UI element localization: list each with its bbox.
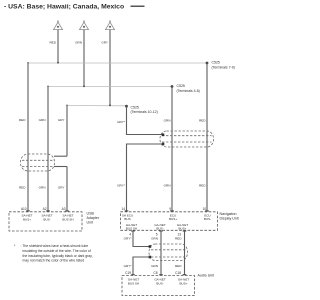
terminal at C8 bbox=[159, 274, 163, 276]
terminal at pin 13 bbox=[183, 230, 187, 232]
svg-text:GRN: GRN bbox=[39, 118, 46, 122]
svg-text:C525: C525 bbox=[177, 84, 185, 88]
wire RED vertical to USB unit bbox=[27, 63, 29, 212]
bus wire 1 (horizontal, y=63) bbox=[28, 62, 207, 64]
svg-text:(Terminals 10-12): (Terminals 10-12) bbox=[131, 110, 158, 114]
svg-text:Navigation: Navigation bbox=[220, 212, 237, 216]
svg-text:GRY*: GRY* bbox=[124, 264, 133, 268]
svg-text:Adapter: Adapter bbox=[87, 216, 100, 220]
svg-text:C525: C525 bbox=[212, 61, 220, 65]
wire GRN nav-to-audio bbox=[160, 231, 162, 275]
shield connection square top (tube 2) bbox=[162, 134, 165, 137]
terminal at A3 bbox=[65, 210, 69, 212]
junction dot wire2/bus2 bbox=[83, 85, 85, 87]
svg-text:BUS SH: BUS SH bbox=[62, 217, 73, 221]
terminal at A10 bbox=[26, 210, 30, 212]
svg-text:BUS-: BUS- bbox=[204, 217, 211, 221]
wire RED right vertical (C525 7-9 to nav unit) bbox=[206, 63, 208, 212]
svg-text:BUS+: BUS+ bbox=[169, 217, 177, 221]
svg-text:may not match the color of the: may not match the color of the wire list… bbox=[23, 259, 85, 263]
terminal at pin 14 bbox=[125, 210, 129, 212]
Navigation Display Unit box bbox=[121, 212, 218, 231]
wire GRY* drain nav-to-shield3 bbox=[133, 231, 150, 247]
svg-text:C19: C19 bbox=[125, 271, 131, 275]
shield tube 3 (audio shielded cable) bbox=[149, 244, 188, 261]
svg-text:RED: RED bbox=[199, 119, 206, 123]
svg-text:A10: A10 bbox=[21, 207, 27, 211]
wire GRN vertical to USB unit bbox=[47, 87, 49, 212]
terminal at C18 bbox=[183, 274, 187, 276]
svg-text:(Terminals 7-9): (Terminals 7-9) bbox=[212, 65, 235, 69]
svg-text:GRY: GRY bbox=[58, 118, 65, 122]
svg-text:USB: USB bbox=[87, 212, 95, 216]
wire GRN right vertical (C525 4-6 to nav unit) bbox=[171, 87, 173, 212]
terminal at pin 9 bbox=[170, 210, 174, 212]
svg-text:: The shielded wires have a he: : The shielded wires have a heat-shrunk … bbox=[21, 244, 89, 248]
svg-text:C8: C8 bbox=[153, 271, 157, 275]
svg-text:BUS+: BUS+ bbox=[23, 217, 31, 221]
svg-text:Audio Unit: Audio Unit bbox=[198, 274, 215, 278]
svg-text:BUS SH: BUS SH bbox=[128, 281, 139, 285]
title dash bbox=[131, 5, 145, 7]
continuation arrow 1 (triangle symbol) bbox=[54, 21, 63, 30]
svg-text:GRN: GRN bbox=[164, 119, 171, 123]
connector dot C525 terminals 4-6 bbox=[171, 85, 174, 88]
shield connection square top (tube 3) bbox=[149, 245, 152, 248]
wire GRY* drain upper segment (C525 10-12 down) bbox=[127, 106, 163, 134]
wire GRY* drain shield3-to-audio bbox=[133, 257, 150, 275]
svg-text:BUS: BUS bbox=[124, 217, 130, 221]
continuation arrow 3 (triangle symbol) bbox=[106, 21, 115, 30]
svg-text:RED: RED bbox=[175, 264, 182, 268]
svg-text:GRN: GRN bbox=[75, 40, 82, 44]
svg-text:BUS-: BUS- bbox=[156, 227, 163, 231]
wire GRY vertical upper segment to shield bbox=[66, 106, 68, 157]
junction dot wire1/bus1 bbox=[57, 62, 59, 64]
svg-text:A2: A2 bbox=[43, 207, 47, 211]
svg-text:BUS SH: BUS SH bbox=[126, 227, 137, 231]
shield drain stub bottom (GRY out of shield) bbox=[54, 166, 67, 168]
shield connection square bottom (tube 2) bbox=[162, 143, 165, 146]
svg-text:GRY: GRY bbox=[58, 185, 65, 189]
terminal at pin 10 bbox=[205, 210, 209, 212]
svg-text:- USA: Base; Hawaii; Canada, M: - USA: Base; Hawaii; Canada, Mexico bbox=[4, 3, 124, 10]
wire RED drop from arrow 1 bbox=[57, 30, 59, 63]
shield connection square bottom (tube 3) bbox=[149, 256, 152, 259]
svg-text:RED: RED bbox=[19, 185, 26, 189]
shield tube 1 (USB shielded cable) bbox=[21, 154, 55, 171]
svg-text:Unit: Unit bbox=[87, 221, 93, 225]
wire GRY drop from arrow 3 bbox=[109, 30, 111, 106]
wire GRY* drain lower segment to nav unit bbox=[127, 144, 163, 212]
corner dot bus3 left bbox=[66, 105, 68, 107]
Audio Unit box bbox=[122, 276, 195, 296]
bus wire 3 (horizontal, y=105.5) bbox=[67, 105, 127, 107]
corner dot bus2 left bbox=[47, 86, 49, 88]
wire GRN drop from arrow 2 bbox=[83, 30, 85, 87]
svg-text:GRY*: GRY* bbox=[117, 120, 126, 124]
svg-text:BUS+: BUS+ bbox=[180, 281, 188, 285]
svg-text:the insulating tube, typically: the insulating tube, typically black or … bbox=[23, 254, 93, 258]
svg-text:RED: RED bbox=[199, 184, 206, 188]
svg-text:GRY: GRY bbox=[101, 40, 108, 44]
shield drain stub top (GRY into shield) bbox=[54, 155, 67, 157]
svg-text:GRY*: GRY* bbox=[124, 236, 133, 240]
svg-text:C18: C18 bbox=[175, 271, 181, 275]
bus wire 2 (horizontal, y=86.5) bbox=[48, 86, 172, 88]
svg-text:GRN: GRN bbox=[164, 184, 171, 188]
svg-text:Display Unit: Display Unit bbox=[220, 217, 239, 221]
svg-text:A3: A3 bbox=[62, 207, 66, 211]
terminal at pin 4 bbox=[131, 230, 135, 232]
connector dot C525 terminals 7-9 bbox=[206, 62, 209, 65]
connector dot C525 terminals 10-12 bbox=[125, 105, 128, 108]
continuation arrow 2 (triangle symbol) bbox=[80, 21, 89, 30]
svg-text:14: 14 bbox=[121, 207, 125, 211]
svg-text:GRN: GRN bbox=[151, 264, 158, 268]
svg-text:insulating the outside of the: insulating the outside of the wire. The … bbox=[23, 249, 91, 253]
svg-text:RED: RED bbox=[175, 236, 182, 240]
junction dot wire3/bus3 bbox=[109, 104, 111, 106]
svg-text:BUS+: BUS+ bbox=[179, 227, 187, 231]
svg-text:(Terminals 4-6): (Terminals 4-6) bbox=[177, 89, 200, 93]
svg-text:BUS-: BUS- bbox=[43, 217, 50, 221]
wire GRY vertical lower segment to USB unit bbox=[66, 167, 68, 212]
wire RED nav-to-audio bbox=[184, 231, 186, 275]
svg-text:C525: C525 bbox=[131, 105, 139, 109]
corner dot bus1 left bbox=[27, 62, 29, 64]
svg-text:GRN: GRN bbox=[39, 185, 46, 189]
shield tube 2 (navigation shielded cable) bbox=[160, 131, 214, 147]
terminal at pin 5 bbox=[159, 230, 163, 232]
terminal at A2 bbox=[46, 210, 50, 212]
terminal at C19 bbox=[131, 274, 135, 276]
svg-text:GRN: GRN bbox=[151, 236, 158, 240]
svg-text:GRY*: GRY* bbox=[117, 184, 126, 188]
USB Adapter Unit box bbox=[9, 212, 82, 231]
svg-text:RED: RED bbox=[19, 118, 26, 122]
svg-text:BUS-: BUS- bbox=[156, 281, 163, 285]
svg-text:RED: RED bbox=[49, 40, 56, 44]
